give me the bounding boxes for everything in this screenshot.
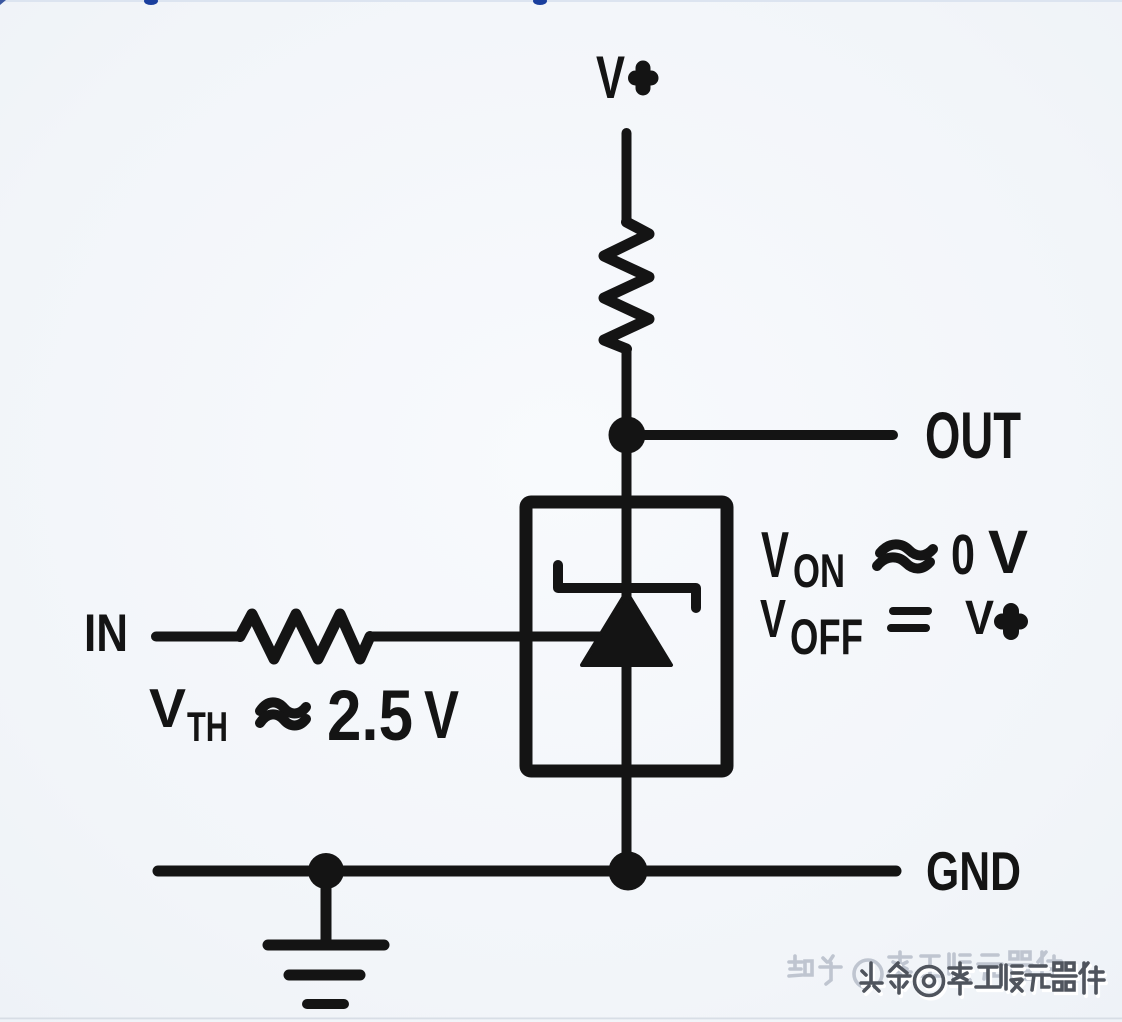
- svg-text:OFF: OFF: [790, 609, 863, 665]
- svg-text:V: V: [149, 677, 186, 739]
- svg-text:V: V: [760, 589, 786, 649]
- svg-text:V: V: [988, 518, 1028, 586]
- svg-text:TH: TH: [187, 703, 228, 750]
- svg-text:ON: ON: [793, 544, 845, 597]
- svg-text:2.5: 2.5: [327, 677, 413, 756]
- svg-text:IN: IN: [84, 604, 128, 663]
- svg-text:V: V: [761, 518, 789, 591]
- svg-text:V: V: [965, 592, 994, 645]
- svg-text:OUT: OUT: [925, 398, 1021, 472]
- svg-text:GND: GND: [926, 840, 1021, 902]
- svg-text:V: V: [424, 677, 459, 753]
- svg-text:0: 0: [951, 523, 975, 587]
- svg-text:V: V: [596, 44, 625, 111]
